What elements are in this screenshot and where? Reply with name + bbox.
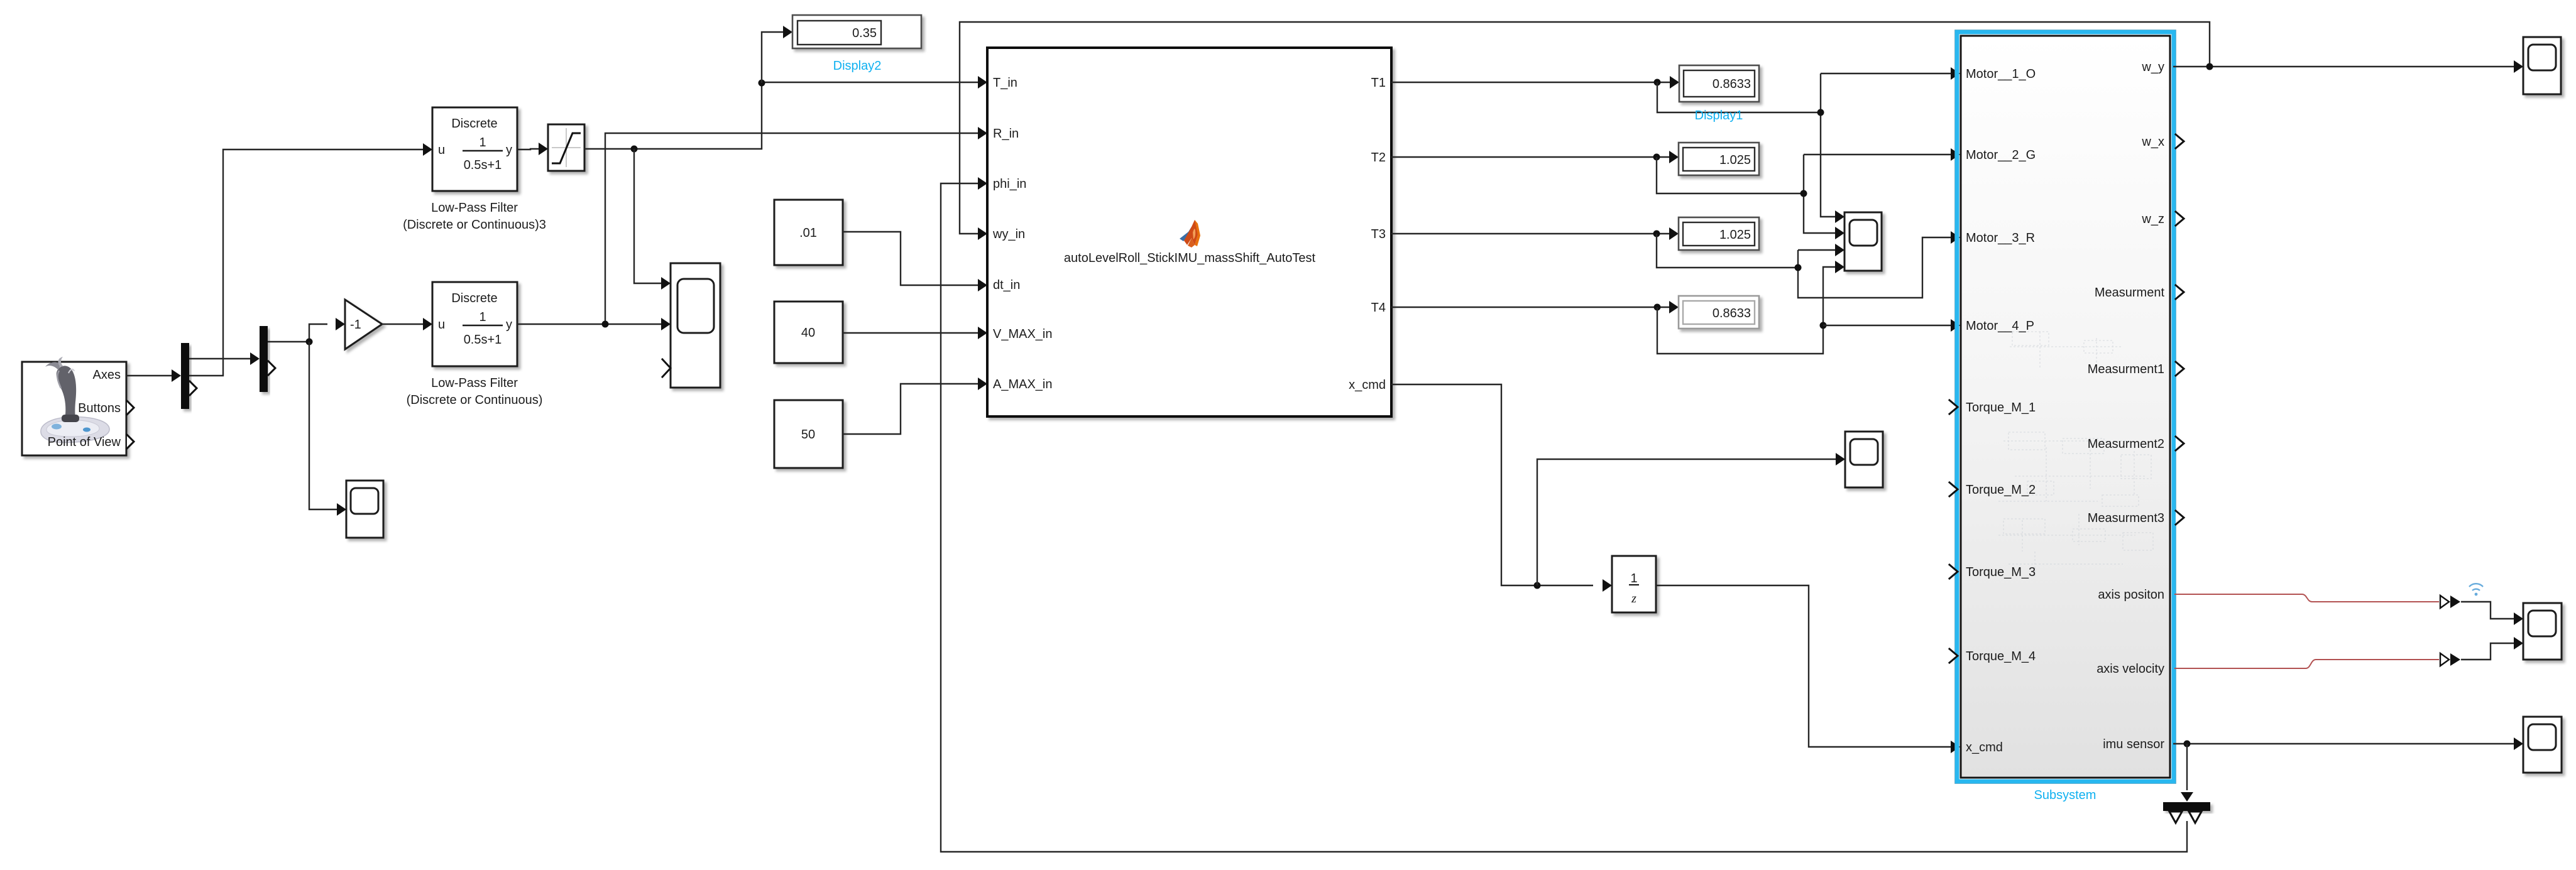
wire x_cmd from U_fcn — [1391, 384, 1593, 585]
svg-text:T4: T4 — [1371, 301, 1386, 315]
black wire to scope SC_axes in2 — [2461, 643, 2514, 660]
constant C40 (40) — [774, 302, 843, 363]
wire demux1 out1 to demux2 — [189, 358, 250, 359]
svg-text:T_in: T_in — [993, 76, 1017, 90]
svg-text:Low-Pass Filter: Low-Pass Filter — [431, 201, 518, 215]
port chevron Buttons (unconnected) — [127, 401, 134, 415]
svg-text:R_in: R_in — [993, 127, 1019, 141]
wire phi_in feedback from bottom bus — [941, 183, 2187, 852]
arrow into phi_in — [978, 177, 987, 190]
port chevron Point of View (unconnected) — [127, 435, 134, 449]
svg-text:0.35: 0.35 — [852, 26, 877, 40]
wire imu sensor out — [2173, 743, 2514, 744]
demux2 chevron output (unconnected) — [268, 361, 275, 375]
wire gain to LPF2 — [382, 324, 423, 325]
svg-text:autoLevelRoll_StickIMU_massShi: autoLevelRoll_StickIMU_massShift_AutoTes… — [1064, 251, 1316, 265]
junction node (2637,131) — [1654, 79, 1661, 86]
wire branch up to Display2 — [762, 32, 783, 83]
display block Display2 (0.35) — [792, 15, 921, 48]
arrow into demux1 — [172, 369, 181, 382]
svg-text:(Discrete or Continuous): (Discrete or Continuous) — [407, 393, 543, 407]
svg-text:1.025: 1.025 — [1719, 228, 1751, 242]
wire demux1 out2 riser to LPF3 input — [189, 150, 423, 376]
svg-text:Point of View: Point of View — [48, 435, 121, 449]
junction node (963,516) — [602, 321, 609, 328]
wire LPF2 out to scope in2 and R_in — [517, 324, 661, 325]
arrow into R_in — [978, 127, 987, 139]
wire T4 to display, Motor__4_P, scope in4 — [1391, 307, 1669, 308]
svg-text:Measurment: Measurment — [2095, 286, 2165, 300]
saturation block SAT1 — [548, 124, 584, 171]
black wire to scope SC_axes in1 — [2461, 602, 2514, 619]
svg-text:V_MAX_in: V_MAX_in — [993, 327, 1053, 341]
arrow into LPF3 — [423, 143, 432, 156]
arrow into dt_in — [978, 279, 987, 291]
junction node (2446,932) — [1534, 582, 1541, 589]
scope block SC_imu — [2523, 717, 2562, 773]
arrow into saturation — [539, 143, 548, 155]
arrow into A_MAX_in — [978, 378, 987, 390]
red wire axis positon — [2174, 594, 2439, 602]
svg-text:Motor__3_R: Motor__3_R — [1966, 231, 2035, 245]
arrow into demux2 — [250, 352, 260, 365]
svg-text:Measurment2: Measurment2 — [2088, 437, 2164, 451]
svg-text:x_cmd: x_cmd — [1966, 741, 2003, 754]
svg-text:axis positon: axis positon — [2098, 588, 2164, 602]
svg-text:Discrete: Discrete — [451, 291, 497, 305]
junction node (2637,489) — [1654, 304, 1661, 311]
junction node (3516,106) — [2206, 63, 2213, 70]
junction node (1212,132) — [759, 80, 765, 87]
wire branch down to left scope — [309, 342, 337, 509]
wire T3 to display, scope in3, Motor__3_R — [1391, 233, 1669, 234]
junction node (2861,426) — [1795, 264, 1802, 271]
wire demux2 out to gain -1 — [268, 324, 327, 342]
svg-text:0.5s+1: 0.5s+1 — [464, 333, 502, 347]
svg-text:A_MAX_in: A_MAX_in — [993, 378, 1053, 391]
svg-text:Torque_M_3: Torque_M_3 — [1966, 565, 2036, 579]
svg-text:T1: T1 — [1371, 76, 1386, 90]
svg-text:Buttons: Buttons — [78, 401, 121, 415]
subsystem block U_sub (highlighted) — [1955, 30, 2176, 783]
torque chevrons (unconnected inputs) — [1949, 400, 1958, 414]
svg-text:T2: T2 — [1371, 151, 1386, 165]
svg-text:Motor__2_G: Motor__2_G — [1966, 148, 2036, 162]
scope block SC_4in — [1844, 212, 1882, 271]
svg-text:Subsystem: Subsystem — [2034, 788, 2096, 802]
display block Display_T2 (1.025) — [1679, 143, 1759, 175]
svg-text:1.025: 1.025 — [1719, 153, 1751, 167]
gain G1 (-1) — [345, 300, 382, 349]
svg-text:wy_in: wy_in — [992, 227, 1025, 241]
scope block SC_left — [346, 481, 383, 538]
joystick icon — [41, 357, 109, 443]
MATLAB function block U_fcn — [987, 48, 1391, 416]
scope block SC_xcmd — [1845, 432, 1883, 487]
wire T1 to Display1 and Motor__1_O and scope — [1391, 82, 1670, 83]
svg-text:Measurment3: Measurment3 — [2088, 511, 2164, 525]
junction node (1009,237) — [631, 146, 638, 153]
svg-text:y: y — [506, 143, 512, 157]
arrow into wy_in — [978, 227, 987, 240]
svg-text:y: y — [506, 318, 512, 332]
svg-text:Torque_M_1: Torque_M_1 — [1966, 401, 2036, 415]
filled arrow — [2450, 595, 2460, 608]
svg-text:Discrete: Discrete — [451, 117, 497, 131]
svg-text:Display2: Display2 — [833, 59, 882, 73]
svg-text:1: 1 — [1630, 572, 1637, 585]
arrow into unit delay — [1603, 579, 1612, 592]
hollow arrow — [2440, 595, 2449, 608]
wire wy_in feedback from w_y (top long wire) — [960, 22, 2210, 234]
svg-text:w_y: w_y — [2141, 60, 2164, 74]
demux1 chevron output (unconnected) — [190, 381, 197, 395]
faint ghost contents of subsystem — [1998, 332, 2153, 577]
wire w_y out to top-right scope — [2173, 66, 2514, 67]
constant C01 (.01) — [774, 200, 843, 265]
scope block SC_wy — [2523, 37, 2561, 94]
arrow into SC_left — [337, 503, 346, 516]
junction node (2897,179) — [1817, 109, 1824, 116]
junction node (492,544) — [306, 339, 313, 345]
wire .01 to dt_in — [843, 232, 978, 285]
svg-text:z: z — [1631, 592, 1636, 606]
svg-text:Axes: Axes — [93, 368, 121, 382]
demux1 (black selector bar) — [181, 343, 189, 409]
svg-text:.01: .01 — [799, 226, 817, 240]
scope block SC_axes — [2523, 603, 2562, 660]
svg-text:phi_in: phi_in — [993, 177, 1026, 191]
svg-text:0.8633: 0.8633 — [1713, 307, 1751, 320]
red wire axis velocity — [2174, 660, 2439, 668]
svg-text:50: 50 — [801, 428, 815, 442]
arrow into gain — [336, 318, 345, 330]
svg-text:w_z: w_z — [2141, 212, 2164, 226]
wire branch down to scope in1 — [634, 149, 661, 283]
wire 50 to A_MAX_in — [843, 384, 978, 434]
low-pass filter block LPF3 — [432, 107, 517, 191]
svg-text:1: 1 — [479, 310, 486, 324]
terminator bar — [2163, 802, 2210, 811]
svg-text:Display1: Display1 — [1695, 109, 1743, 122]
svg-text:Torque_M_4: Torque_M_4 — [1966, 650, 2036, 663]
svg-text:Measurment1: Measurment1 — [2088, 362, 2164, 376]
scope chevron third input (unconnected) — [662, 359, 671, 377]
svg-text:Motor__1_O: Motor__1_O — [1966, 67, 2036, 81]
wifi icon — [2469, 584, 2483, 595]
demux2 (black selector bar) — [260, 326, 268, 392]
svg-text:u: u — [438, 318, 445, 332]
svg-text:Torque_M_2: Torque_M_2 — [1966, 483, 2036, 497]
svg-text:axis velocity: axis velocity — [2096, 662, 2164, 676]
svg-text:40: 40 — [801, 326, 815, 340]
constant C50 (50) — [774, 400, 843, 468]
junction node (2636,250) — [1653, 154, 1660, 161]
branch to scope SC_xcmd — [1537, 459, 1836, 585]
wire T2 to display and Motor__2_G and scope — [1391, 156, 1669, 158]
svg-text:1: 1 — [479, 136, 486, 150]
svg-text:u: u — [438, 143, 445, 157]
filled arrow — [2450, 653, 2460, 666]
display block Display_T4 (0.8633 faded) — [1679, 296, 1759, 329]
wire Axes to demux1 — [126, 375, 172, 376]
wire saturation out, T_in net — [584, 82, 978, 149]
svg-text:dt_in: dt_in — [993, 278, 1020, 292]
junction node (2901,518) — [1820, 322, 1827, 329]
MATLAB logo — [1180, 220, 1200, 247]
junction node (2870,308) — [1800, 190, 1807, 197]
svg-text:-1: -1 — [350, 318, 361, 332]
svg-text:x_cmd: x_cmd — [1349, 378, 1386, 392]
unit delay block UD1 (1/z) — [1612, 556, 1656, 612]
arrow into scope in2 — [661, 318, 671, 330]
junction node (3480,1184) — [2184, 741, 2191, 748]
terminator triangle 2 — [2189, 812, 2201, 823]
svg-text:Low-Pass Filter: Low-Pass Filter — [431, 376, 518, 390]
arrow into scope in1 — [661, 277, 671, 290]
wire imu branch down to terminators — [2186, 744, 2188, 790]
output chevrons (unconnected outputs) — [2176, 134, 2184, 148]
wire 40 to V_MAX_in — [843, 332, 978, 334]
display block Display1 (0.8633) — [1679, 65, 1759, 102]
svg-text:T3: T3 — [1371, 227, 1386, 241]
wire 1/z out to subsystem x_cmd — [1656, 585, 1951, 747]
low-pass filter block LPF2 — [432, 282, 517, 366]
joystick input block U_joy — [22, 362, 126, 455]
arrow into Display2 — [783, 26, 792, 38]
wire LPF3 to saturation — [517, 149, 539, 150]
junction node (2636,372) — [1653, 231, 1660, 237]
arrow into V_MAX_in — [978, 327, 987, 339]
svg-text:w_x: w_x — [2141, 135, 2164, 149]
arrow into LPF2 — [423, 318, 432, 330]
svg-text:(Discrete or Continuous)3: (Discrete or Continuous)3 — [403, 218, 546, 232]
svg-text:0.5s+1: 0.5s+1 — [464, 158, 502, 172]
terminator triangle 1 — [2169, 812, 2182, 823]
arrow into T_in — [978, 76, 987, 89]
svg-text:0.8633: 0.8633 — [1713, 77, 1751, 91]
svg-text:Motor__4_P: Motor__4_P — [1966, 319, 2034, 333]
display block Display_T3 (1.025) — [1679, 217, 1759, 250]
hollow arrow — [2440, 653, 2449, 666]
svg-text:imu sensor: imu sensor — [2103, 737, 2164, 751]
scope block SC_mid — [671, 263, 720, 388]
